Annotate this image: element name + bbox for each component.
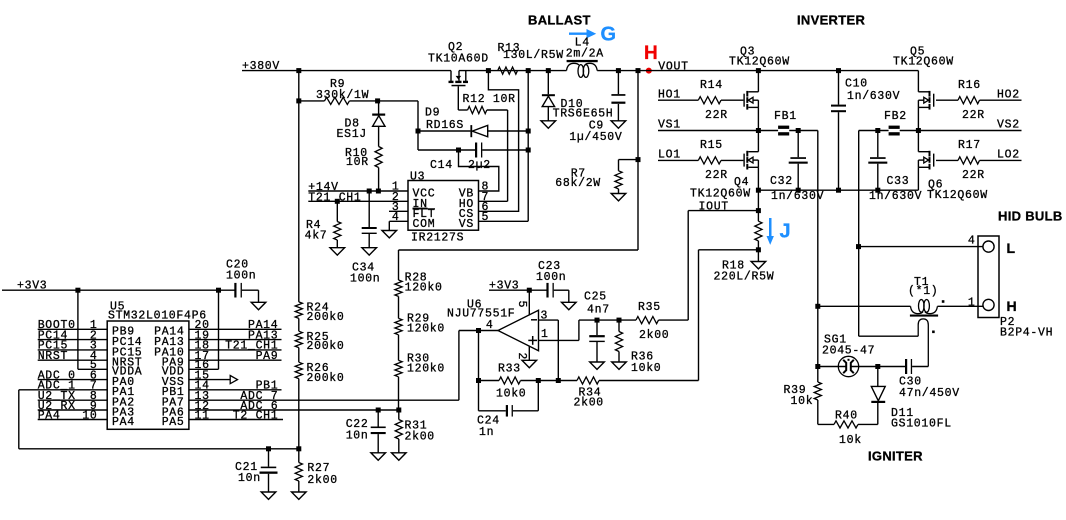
svg-text:R12 10R: R12 10R xyxy=(463,93,516,106)
svg-text:10k0: 10k0 xyxy=(496,388,526,401)
junction R33/-input xyxy=(556,378,561,383)
svg-text:100n: 100n xyxy=(350,273,380,286)
wire lamp L pin4 xyxy=(859,246,984,248)
net PA13 pin19 xyxy=(189,329,282,342)
wire VOUT down to R7 and feedback ladder xyxy=(399,71,639,250)
svg-text:TK12Q60W: TK12Q60W xyxy=(690,188,751,201)
junction +3V3/VDDA xyxy=(75,288,80,293)
net ADC_7 pin13 to op-amp output xyxy=(189,331,459,404)
diode D9 RD16S xyxy=(418,107,528,138)
net +380V rail xyxy=(242,60,918,73)
resistor R17 22R xyxy=(936,139,985,182)
svg-text:IOUT: IOUT xyxy=(699,200,729,213)
net PC14 pin2 xyxy=(38,329,108,342)
svg-text:VS2: VS2 xyxy=(997,118,1020,131)
capacitor C20 100n xyxy=(226,258,266,309)
capacitor C10 1n/630V xyxy=(831,71,900,191)
junction R33/C24 right xyxy=(536,378,541,383)
wire op-amp -input pin3 xyxy=(539,320,559,380)
net LO2 xyxy=(980,148,1022,161)
svg-text:U3: U3 xyxy=(410,170,425,183)
junction +input/C25 xyxy=(595,318,600,323)
svg-text:PA9: PA9 xyxy=(256,350,279,363)
junction rail/C9 xyxy=(616,68,621,73)
svg-text:VOUT: VOUT xyxy=(658,60,688,73)
svg-text:(*1): (*1) xyxy=(908,285,938,298)
svg-text:330k/1W: 330k/1W xyxy=(316,89,369,102)
capacitor C32 1n/630V xyxy=(770,131,824,204)
net U2_TX pin8 xyxy=(38,390,108,403)
svg-text:LO1: LO1 xyxy=(658,148,681,161)
wire CS sense tap to U3 pin6 xyxy=(479,71,519,212)
svg-text:4: 4 xyxy=(968,235,976,248)
wire op-amp pin5 supply xyxy=(528,290,530,315)
svg-text:C32: C32 xyxy=(770,175,793,188)
svg-text:4n7: 4n7 xyxy=(587,303,610,316)
svg-text:4: 4 xyxy=(392,211,400,224)
junction VCC/C34 xyxy=(367,189,372,194)
net HO1 xyxy=(658,88,698,101)
svg-text:11: 11 xyxy=(195,409,210,422)
svg-text:2045-47: 2045-47 xyxy=(822,345,875,358)
spark gap SG1 2045-47 xyxy=(818,333,878,376)
svg-text:2µ2: 2µ2 xyxy=(468,159,491,172)
svg-text:100n: 100n xyxy=(536,271,566,284)
wire VS2 column down to T1 secondary xyxy=(859,131,919,337)
transistor Q4 TK12Q60W xyxy=(690,131,758,201)
transistor Q3 TK12Q60W xyxy=(729,46,790,131)
junction VS2/Q5-Q6 xyxy=(916,128,921,133)
svg-text:120k0: 120k0 xyxy=(407,323,445,336)
svg-text:5: 5 xyxy=(515,301,528,309)
svg-text:22R: 22R xyxy=(705,169,728,182)
capacitor C34 100n xyxy=(350,191,380,286)
junction R9 left xyxy=(296,98,301,103)
net BOOT0 pin1 xyxy=(38,319,108,332)
capacitor C30 47n/450V xyxy=(878,359,960,400)
wire op-amp pin2 to ground xyxy=(522,346,537,368)
svg-text:D9: D9 xyxy=(425,107,440,120)
svg-text:TK12Q60W: TK12Q60W xyxy=(893,56,954,69)
junction +3V3/op-amp V+ xyxy=(527,288,532,293)
svg-text:1n/630V: 1n/630V xyxy=(847,90,900,103)
net PC15 pin3 xyxy=(38,340,108,353)
junction IN/R4 xyxy=(335,199,340,204)
svg-text:PA4: PA4 xyxy=(112,416,135,429)
resistor R4 4k7 xyxy=(305,201,345,255)
wire R9 right down to C14 row xyxy=(417,101,419,150)
net ADC_6 pin12 to divider xyxy=(189,400,399,413)
net PA9 pin17 xyxy=(189,350,282,363)
svg-text:R14: R14 xyxy=(700,79,723,92)
resistor R25 200k0 xyxy=(295,318,344,353)
capacitor C21 10n xyxy=(235,449,278,500)
junction ADC_6/C22 xyxy=(376,408,381,413)
resistor R10 10R xyxy=(345,126,382,191)
svg-text:22R: 22R xyxy=(705,109,728,122)
svg-text:10R: 10R xyxy=(346,156,369,169)
svg-text:COM: COM xyxy=(413,218,436,231)
svg-text:1: 1 xyxy=(968,296,976,309)
wire VDD pin16 riser xyxy=(218,290,220,369)
svg-text:10: 10 xyxy=(82,409,97,422)
junction C21 tap xyxy=(266,446,271,451)
junction rail/CS tap xyxy=(486,68,491,73)
svg-text:PA5: PA5 xyxy=(162,416,185,429)
transistor Q5 TK12Q60W xyxy=(893,46,954,131)
svg-text:GS1010FL: GS1010FL xyxy=(891,418,952,431)
microcontroller U5 STM32L010F4P6 xyxy=(82,300,209,429)
wire C14 to U3 VB pin8 xyxy=(459,150,499,191)
svg-text:L: L xyxy=(1007,240,1016,256)
capacitor C25 4n7 xyxy=(584,291,610,370)
diode D8 ES1J xyxy=(337,101,386,141)
net LO1 xyxy=(658,148,698,161)
svg-text:C14: C14 xyxy=(430,159,453,172)
junction igniter/T1 primary xyxy=(815,304,820,309)
svg-text:200k0: 200k0 xyxy=(307,311,345,324)
net ADC_0 pin6 xyxy=(38,369,108,382)
svg-text:LO2: LO2 xyxy=(997,148,1020,161)
resistor R28 120k0 xyxy=(395,250,443,296)
junction SG1/D11/C30 xyxy=(875,364,880,369)
junction VS1/C32 xyxy=(796,128,801,133)
junction bottom/C32 xyxy=(796,188,801,193)
svg-text:5: 5 xyxy=(482,211,490,224)
junction ADC_6/R30/R31 xyxy=(396,408,401,413)
net IOUT xyxy=(688,200,758,213)
junction +380V/R9 column xyxy=(296,68,301,73)
svg-text:R40: R40 xyxy=(835,409,858,422)
junction C14 left / VB feed xyxy=(456,148,461,153)
svg-text:220L/R5W: 220L/R5W xyxy=(714,270,775,283)
svg-text:4k7: 4k7 xyxy=(305,230,328,243)
svg-text:2: 2 xyxy=(515,353,528,361)
svg-text:R16: R16 xyxy=(958,79,981,92)
svg-text:RD16S: RD16S xyxy=(426,119,464,132)
resistor R12 10R xyxy=(458,93,515,114)
transistor Q6 TK12Q60W xyxy=(918,131,987,202)
svg-text:TK12Q60W: TK12Q60W xyxy=(927,189,988,202)
resistor R24 200k0 xyxy=(295,301,344,324)
resistor R31 2k00 xyxy=(392,410,435,460)
ferrite bead FB2 xyxy=(884,110,907,136)
wire VDD pin16 xyxy=(189,368,219,370)
junction D9 right / switch node xyxy=(526,129,531,134)
net T2_CH1 pin11 xyxy=(189,409,283,422)
junction R33 left/C24/output xyxy=(476,378,481,383)
wire +380V down to resistor ladder xyxy=(298,71,300,302)
transformer T1 (*1) xyxy=(818,276,983,367)
junction VCC/R10 xyxy=(376,189,381,194)
svg-text:BALLAST: BALLAST xyxy=(528,13,591,28)
resistor R35 2k00 xyxy=(619,301,688,342)
svg-text:J: J xyxy=(780,221,791,243)
junction rail/C10 xyxy=(836,68,841,73)
junction VS1/Q3-Q4 xyxy=(756,128,761,133)
svg-text:2k00: 2k00 xyxy=(639,329,669,342)
wire R18 bottom to R34 xyxy=(699,250,759,381)
resistor R18 220L/R5W xyxy=(714,221,775,283)
svg-text:130L/R5W: 130L/R5W xyxy=(503,49,564,62)
resistor R30 120k0 xyxy=(395,335,445,410)
wire VS1 column down to igniter xyxy=(817,131,819,383)
svg-text:200k0: 200k0 xyxy=(307,372,345,385)
U3 COM pin4 to ground xyxy=(382,221,408,238)
junction IOUT tap xyxy=(756,208,761,213)
junction rail/D10 xyxy=(546,68,551,73)
resistor R40 10k xyxy=(818,409,878,447)
junction rail/switch node column xyxy=(526,68,531,73)
junction bottom/C10 xyxy=(836,188,841,193)
junction C14 right / switch node xyxy=(526,148,531,153)
capacitor C33 1n/630V xyxy=(868,131,922,204)
svg-text:IGNITER: IGNITER xyxy=(868,449,923,464)
net NRST pin4 xyxy=(38,350,108,363)
VSS pin15 arrow xyxy=(189,376,238,384)
svg-text:120k0: 120k0 xyxy=(407,363,445,376)
svg-text:HO2: HO2 xyxy=(997,88,1020,101)
svg-text:1µ/450V: 1µ/450V xyxy=(569,131,622,144)
resistor R39 10k xyxy=(784,382,822,424)
svg-text:HID BULB: HID BULB xyxy=(998,209,1063,224)
capacitor C14 2u2 (bootstrap) xyxy=(418,143,528,173)
svg-text:2k00: 2k00 xyxy=(405,430,435,443)
junction VS2 column / L wire xyxy=(856,244,861,249)
blue arrow G (ballast current) xyxy=(569,24,616,46)
resistor R13 130L/R5W xyxy=(498,42,564,74)
svg-text:120k0: 120k0 xyxy=(405,282,443,295)
junction R7 tap xyxy=(636,157,641,162)
wire Q4 source to R18 xyxy=(757,190,759,221)
svg-text:VS1: VS1 xyxy=(658,118,681,131)
net VS1 xyxy=(658,118,778,131)
svg-text:68k/2W: 68k/2W xyxy=(555,177,601,190)
svg-text:2k00: 2k00 xyxy=(574,397,604,410)
op-driver U3 IR2127S xyxy=(392,170,489,244)
svg-text:10k0: 10k0 xyxy=(631,362,661,375)
capacitor C22 10n xyxy=(346,410,386,460)
svg-text:INVERTER: INVERTER xyxy=(797,13,865,28)
resistor R14 22R xyxy=(698,79,743,122)
svg-text:R35: R35 xyxy=(638,301,661,314)
net T21_CH1 to U3 IN pin2 xyxy=(308,192,408,205)
net PB1 pin14 xyxy=(189,380,282,393)
resistor R34 2k00 xyxy=(574,377,699,410)
junction D9 left xyxy=(416,129,421,134)
blue arrow J (IOUT current) xyxy=(767,218,791,245)
wire output down to R33 xyxy=(478,331,480,381)
svg-text:47n/450V: 47n/450V xyxy=(899,387,960,400)
resistor R29 120k0 xyxy=(395,296,445,335)
svg-text:ES1J: ES1J xyxy=(337,128,367,141)
svg-text:VS: VS xyxy=(459,218,474,231)
svg-text:NRST: NRST xyxy=(38,350,68,363)
svg-text:100n: 100n xyxy=(226,269,256,282)
diode D11 GS1010FL xyxy=(871,367,952,431)
svg-text:G: G xyxy=(601,24,617,46)
svg-text:10n: 10n xyxy=(238,472,261,485)
capacitor C23 100n xyxy=(536,260,576,310)
resistor R7 68k/2W xyxy=(555,160,638,201)
svg-text:FB2: FB2 xyxy=(884,110,907,123)
resistor R16 22R xyxy=(936,79,985,122)
net T21_CH1 pin18 xyxy=(189,340,282,353)
svg-text:1: 1 xyxy=(541,328,549,341)
wire bridge bottom rail xyxy=(758,189,918,191)
U3 FLT stub pin3 xyxy=(389,210,408,212)
svg-text:TK10A60D: TK10A60D xyxy=(428,53,489,66)
junction +input/R36 xyxy=(617,318,622,323)
transistor Q2 TK10A60D xyxy=(428,41,489,110)
junction +3V3/VDD xyxy=(216,288,221,293)
svg-text:NJU77551F: NJU77551F xyxy=(447,307,515,320)
svg-text:C25: C25 xyxy=(584,291,607,304)
junction R26/R27 xyxy=(296,446,301,451)
svg-text:TK12Q60W: TK12Q60W xyxy=(729,56,790,69)
wire VDDA pin5 riser xyxy=(77,290,79,369)
svg-text:B2P4-VH: B2P4-VH xyxy=(1000,327,1053,340)
svg-text:C10: C10 xyxy=(845,78,868,91)
junction rail/Q3 drain xyxy=(756,68,761,73)
svg-text:22R: 22R xyxy=(962,109,985,122)
wire VDDA pin5 xyxy=(78,368,107,370)
ferrite bead FB1 xyxy=(774,110,818,136)
svg-text:PA4: PA4 xyxy=(38,409,61,422)
junction R18 bottom / R34 return xyxy=(756,247,761,252)
svg-text:10k: 10k xyxy=(791,395,814,408)
net +3V3 (op-amp) xyxy=(489,279,547,292)
red node marker H at VOUT xyxy=(644,43,658,73)
svg-text:22R: 22R xyxy=(962,169,985,182)
junction igniter/SG1 row xyxy=(815,364,820,369)
wire op-amp output pin4 xyxy=(459,330,498,332)
connector P2 B2P4-VH xyxy=(968,235,1053,340)
svg-text:2m/2A: 2m/2A xyxy=(566,48,604,61)
wire switch node column to U3 VS pin5 xyxy=(479,71,529,222)
svg-text:HO1: HO1 xyxy=(658,88,681,101)
net ADC_1 pin7 xyxy=(19,380,107,393)
wire U3 HO pin7 up to R12 xyxy=(479,110,508,201)
net +3V3 (MCU) xyxy=(2,279,236,292)
inductor L4 2m/2A xyxy=(566,37,604,78)
junction R9/D8 node xyxy=(375,98,380,103)
resistor R27 2k00 xyxy=(292,449,338,500)
resistor R33 10k0 xyxy=(479,362,578,400)
net HO2 xyxy=(980,88,1022,101)
svg-text:1n: 1n xyxy=(479,426,494,439)
svg-text:R17: R17 xyxy=(958,139,981,152)
svg-text:FB1: FB1 xyxy=(774,110,797,123)
svg-text:T2_CH1: T2_CH1 xyxy=(233,409,279,422)
wire ADC_1 to R26/R27 divider xyxy=(19,390,299,449)
capacitor C24 1n xyxy=(477,381,538,439)
op-amp U6 NJU77551F xyxy=(447,298,549,360)
net PA4 pin10 xyxy=(38,409,108,422)
wire IOUT down to R35 xyxy=(687,211,689,321)
svg-text:C33: C33 xyxy=(887,175,910,188)
junction output/R33 xyxy=(476,328,481,333)
net PA14 pin20 xyxy=(189,319,282,332)
junction bottom/Q4 source xyxy=(756,188,761,193)
junction rail/R7-feedback column xyxy=(636,68,641,73)
net U2_RX pin9 xyxy=(38,400,108,413)
svg-text:200k0: 200k0 xyxy=(307,340,345,353)
svg-text:10k: 10k xyxy=(839,434,862,447)
svg-text:TRS6E65H: TRS6E65H xyxy=(553,107,614,120)
resistor R36 10k0 xyxy=(612,320,662,375)
svg-text:H: H xyxy=(1007,298,1017,314)
svg-text:H: H xyxy=(644,43,658,64)
resistor R9 330k/1W xyxy=(299,78,418,105)
resistor R26 200k0 xyxy=(295,348,344,449)
resistor R15 22R xyxy=(698,139,743,182)
svg-text:R33: R33 xyxy=(498,362,521,375)
capacitor C9 1u/450V xyxy=(569,71,625,144)
net +14V to U3 VCC pin1 xyxy=(308,181,408,194)
junction bottom/C33 xyxy=(875,188,880,193)
svg-text:2k00: 2k00 xyxy=(307,474,337,487)
wire op-amp +input pin1 xyxy=(539,320,620,340)
svg-text:10n: 10n xyxy=(346,429,369,442)
svg-text:R15: R15 xyxy=(700,139,723,152)
net VS2 xyxy=(859,118,1022,131)
svg-text:IR2127S: IR2127S xyxy=(411,231,464,244)
diode D10 TRS6E65H xyxy=(541,71,613,129)
junction VS2/C33 xyxy=(875,128,880,133)
